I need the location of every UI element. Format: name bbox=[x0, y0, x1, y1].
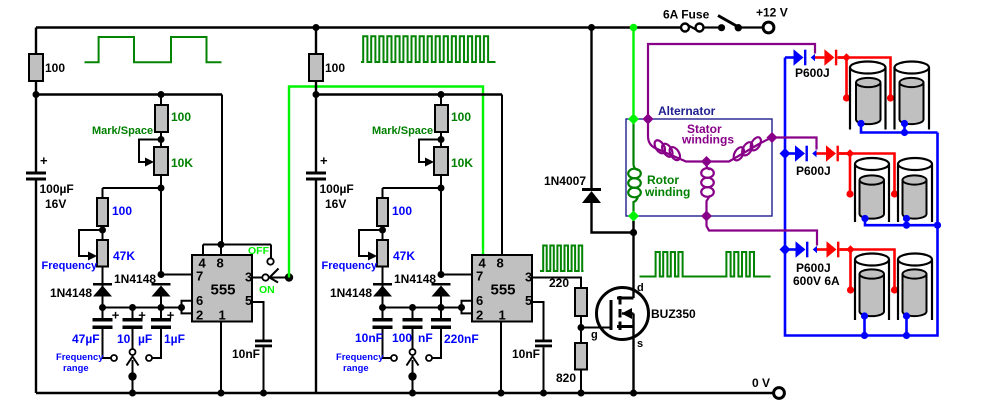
diode pair P600J row 1 (blue + red) bbox=[785, 56, 794, 59]
svg-text:10nF: 10nF bbox=[355, 331, 383, 345]
node: blue dots row 1 bbox=[857, 120, 864, 127]
svg-text:+: + bbox=[167, 308, 175, 323]
wire: red electrode feed row 2 bbox=[839, 154, 895, 195]
svg-text:+12 V: +12 V bbox=[756, 6, 788, 20]
wire: blue cell returns row 1 bbox=[861, 124, 938, 133]
electrolysis cell row1 A bbox=[849, 68, 851, 130]
diode D1 1N4007 bbox=[582, 28, 634, 233]
switch S1 (on/off power switch) bbox=[704, 16, 764, 32]
node: green diamond top (rotor top) bbox=[628, 114, 639, 125]
wire: green rotor supply from top rail bbox=[632, 28, 634, 120]
electrolysis cell row1 B bbox=[893, 68, 895, 130]
resistor R 220 bbox=[575, 288, 587, 316]
inductor stator winding right (purple) bbox=[707, 135, 773, 162]
svg-text:windings: windings bbox=[681, 133, 734, 147]
node: rotor supply junction (green) on top rail bbox=[630, 24, 638, 32]
wire: purple stator phase A riser to +12 area bbox=[648, 44, 815, 119]
node: 1N4007 junction on top rail bbox=[588, 24, 595, 31]
svg-text:6A Fuse: 6A Fuse bbox=[663, 8, 710, 22]
node: red dots row 1 bbox=[843, 94, 850, 101]
node: purple diamond stator top-left bbox=[643, 114, 654, 125]
node: red dots row 2 bbox=[846, 190, 853, 197]
wire: blue return bus (left vertical) bbox=[785, 58, 938, 336]
svg-text:47µF: 47µF bbox=[72, 332, 100, 346]
svg-text:ON: ON bbox=[259, 284, 275, 296]
svg-text:P600J: P600J bbox=[796, 261, 831, 275]
svg-text:BUZ350: BUZ350 bbox=[651, 307, 696, 321]
inductor stator winding center (purple, vertical) bbox=[701, 162, 714, 217]
oscillator 2 (555 astable U2 with R 100, Mark/Space 10K pot, 100 + 47K Frequency pot, 1N4148 diodes, timing caps, 10nF, 100uF) bbox=[306, 28, 552, 397]
waveform: osc1 output square wave (green) bbox=[85, 37, 222, 62]
wire: blue cell returns row 2 bbox=[865, 219, 938, 226]
node: purple diamond stator bottom bbox=[701, 211, 712, 222]
terminal: 0 V bbox=[774, 388, 785, 399]
wire: osc2 Vcc rail to U2 pin 8 bbox=[501, 95, 503, 256]
svg-text:1µF: 1µF bbox=[164, 332, 185, 346]
oscillator 1 (555 astable U1 with R 100, Mark/Space 10K pot, 100 + 47K Frequency pot, 1N4148 diodes, timing caps, 10nF, 100uF) bbox=[26, 28, 272, 397]
node: switch common (green wire start) bbox=[285, 273, 293, 281]
svg-text:+: + bbox=[112, 308, 120, 323]
svg-text:winding: winding bbox=[644, 185, 690, 199]
svg-text:820: 820 bbox=[556, 371, 576, 385]
svg-text:600V 6A: 600V 6A bbox=[793, 274, 840, 288]
inductor L1 rotor winding (green) bbox=[628, 119, 641, 224]
diode pair P600J row 2 (blue + red) bbox=[785, 152, 795, 155]
wire: osc1 Vcc rail to pins 4/8 of U1 bbox=[222, 95, 271, 245]
svg-text:P600J: P600J bbox=[796, 164, 831, 178]
node: blue bus row3 junction bbox=[780, 244, 791, 255]
node: pins 4/8 junction osc1 bbox=[218, 241, 225, 248]
svg-text:10: 10 bbox=[117, 332, 131, 346]
wire: 220 to gate node bbox=[580, 316, 582, 343]
waveform: osc2 output pulse train (green) bbox=[361, 36, 496, 62]
svg-text:220: 220 bbox=[549, 276, 569, 290]
svg-text:1N4007: 1N4007 bbox=[544, 174, 586, 188]
svg-text:Alternator: Alternator bbox=[658, 104, 716, 118]
inductor stator winding left (purple) bbox=[648, 119, 707, 162]
svg-text:nF: nF bbox=[418, 331, 433, 345]
svg-text:OFF: OFF bbox=[248, 245, 270, 257]
electrolysis cell row2 B bbox=[897, 164, 899, 222]
transistor Q1 BUZ350 MOSFET bbox=[581, 233, 649, 394]
node: purple diamond stator center bbox=[701, 156, 712, 167]
node: gate junction bbox=[578, 324, 585, 331]
wire: U1 pin 3 stub bbox=[252, 277, 262, 279]
svg-text:d: d bbox=[637, 282, 644, 294]
wire: purple stator phase C to row3 diodes bbox=[707, 216, 818, 246]
wire: 0V ground rail bbox=[36, 392, 774, 395]
electrolysis cell row3 A bbox=[854, 260, 856, 321]
wire: blue cell returns row 3 bbox=[863, 316, 866, 336]
wire: purple stator phase B to row2 diodes bbox=[772, 138, 817, 150]
wire: U2 pin 3 to gate resistor bbox=[532, 278, 581, 289]
electrolysis cell row3 B bbox=[897, 260, 899, 321]
node: blue dots row 3 bbox=[861, 312, 868, 319]
svg-text:µF: µF bbox=[138, 332, 152, 346]
wire: rotor bottom to drain junction bbox=[632, 221, 634, 233]
label: osc1 timing cap values 47uF / 10uF / 1uF with + marks bbox=[72, 308, 185, 347]
svg-text:220nF: 220nF bbox=[444, 332, 479, 346]
svg-text:s: s bbox=[637, 338, 643, 350]
wire: red electrode feed row 1 bbox=[839, 58, 891, 99]
svg-text:g: g bbox=[591, 329, 598, 341]
waveform: gate drive pulse train (green) bbox=[540, 246, 584, 272]
wire: +12V top rail bbox=[36, 26, 682, 28]
label: osc2 timing cap values 10nF / 100nF / 220nF bbox=[355, 331, 479, 346]
wire: red electrode feed row 3 bbox=[840, 250, 895, 291]
resistor R 820 bbox=[575, 343, 587, 370]
switch S2 ON contact + wiper arrow bbox=[262, 274, 268, 280]
node: drain junction bbox=[630, 229, 637, 236]
switch S2 OFF contact (wire down to contact) bbox=[270, 245, 272, 259]
svg-text:0 V: 0 V bbox=[752, 376, 770, 390]
svg-text:100: 100 bbox=[392, 331, 412, 345]
wire: 820 to ground bbox=[580, 370, 582, 394]
node: purple diamond stator right bbox=[767, 132, 778, 143]
fuse F1 6A bbox=[681, 24, 704, 32]
svg-text:P600J: P600J bbox=[795, 66, 830, 80]
node: MOSFET source at ground rail bbox=[630, 390, 637, 397]
waveform: drain burst waveform (green) bbox=[640, 252, 771, 277]
node: blue dots row 2 bbox=[861, 215, 868, 222]
node: green diamond bottom (rotor bottom) bbox=[628, 211, 639, 222]
alternator box bbox=[626, 119, 772, 216]
node: blue bus row2 junction bbox=[780, 148, 791, 159]
wire: green gating wire from S2 to U2 pin 4 bbox=[289, 87, 483, 278]
diode pair P600J row 3 (blue + red) bbox=[785, 248, 796, 251]
node: osc2 supply junction on top rail bbox=[313, 24, 320, 31]
node: red dots row 3 bbox=[847, 286, 854, 293]
electrolysis cell row2 A bbox=[854, 164, 856, 222]
svg-text:+: + bbox=[138, 308, 146, 323]
terminal: +12 V bbox=[763, 22, 774, 33]
